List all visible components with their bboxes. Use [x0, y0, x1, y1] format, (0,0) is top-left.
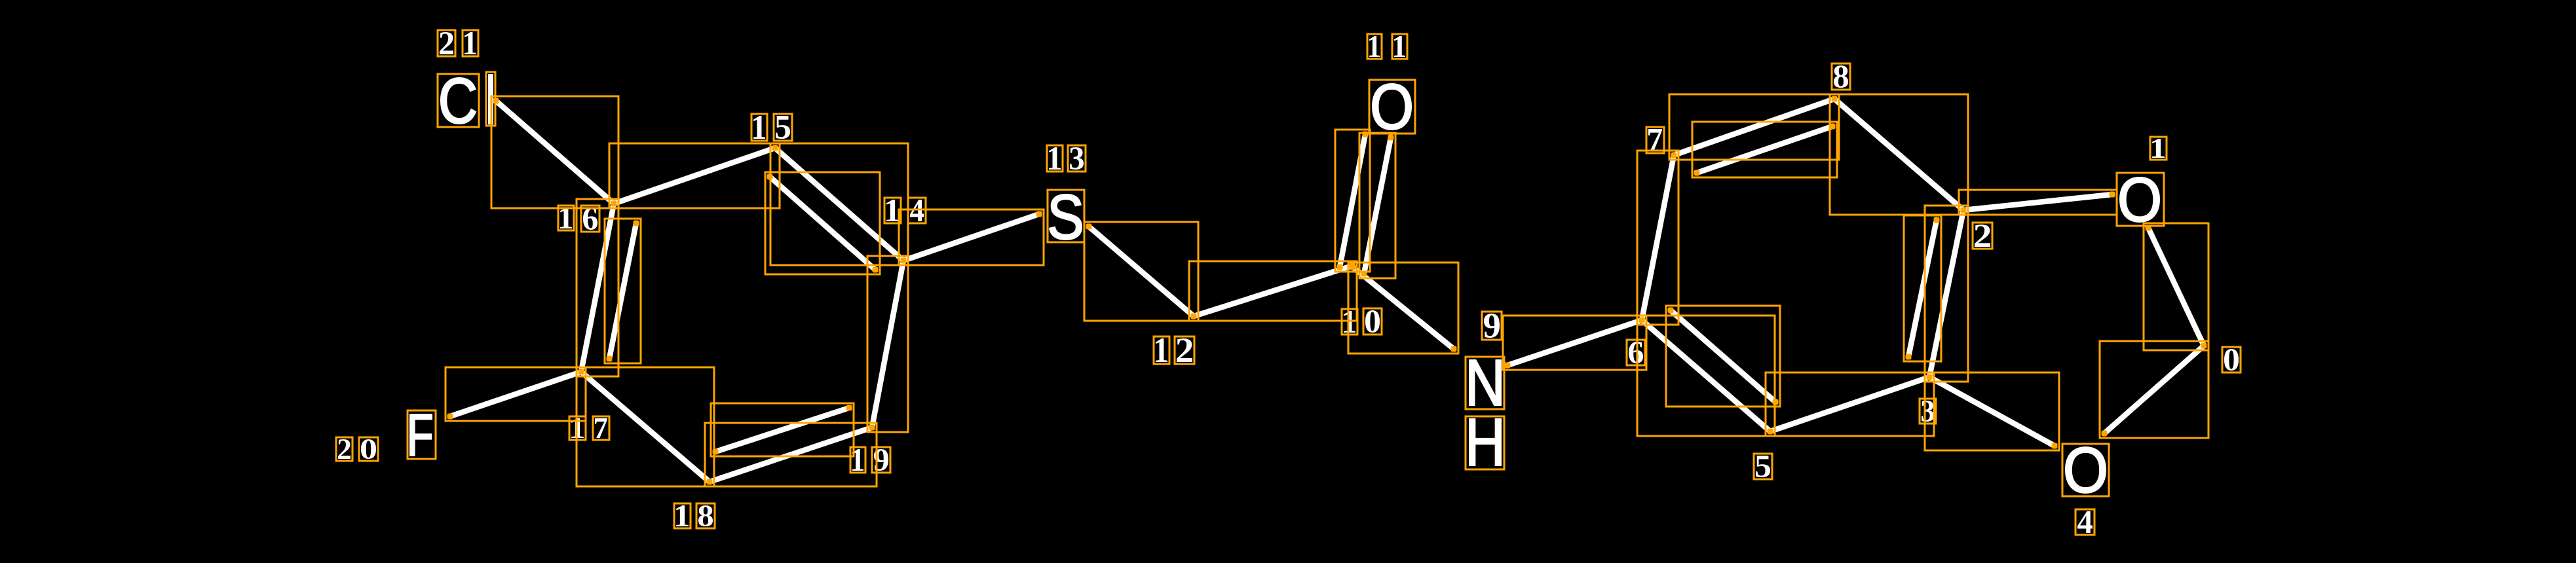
box of bond C8-C2 [1830, 94, 1968, 215]
box of bond C10=O11 right [1359, 133, 1395, 278]
box of index 20 digit 0 [359, 437, 378, 461]
bond C2-O1 [1963, 194, 2112, 210]
bond C14-C19 [872, 261, 903, 427]
index 3 digit glyph [1922, 401, 1934, 422]
index 18 digit 1 glyph [676, 505, 689, 526]
atom N9 'H' glyph [1469, 419, 1501, 465]
index 9 digit glyph [1484, 314, 1500, 338]
index 8 digit glyph [1834, 65, 1848, 88]
atom O1 glyph [2120, 177, 2159, 222]
box of index 21 digit 1 [463, 30, 478, 56]
box of index 21 digit 2 [438, 30, 455, 56]
index 15 digit 1 glyph [753, 116, 765, 139]
atom S13 glyph [1050, 194, 1082, 240]
atom Cl21 'l' glyph [489, 75, 493, 124]
box of index 11 digit a [1367, 34, 1382, 59]
box of index 19 digit 9 [872, 447, 890, 473]
box of bond C19-C18 inner [711, 403, 854, 456]
bond C8-C2 [1834, 99, 1963, 210]
box of bond N9-C6 [1503, 316, 1646, 370]
box of bond C16-C15 [609, 143, 780, 208]
box of index 7 digit [1646, 127, 1664, 153]
index 14 digit 1 glyph [886, 200, 899, 221]
bond C10-N9 [1353, 267, 1454, 349]
box of bond C17-F20 [445, 367, 586, 421]
bond C15-C14 inner [770, 177, 875, 270]
box of bond C19-C18 main [705, 423, 877, 486]
box of index 15 digit 1 [751, 114, 767, 141]
box of index 16 digit 6 [581, 206, 599, 232]
box of bond C3-O4 [1925, 372, 2059, 450]
box of index 10 digit 0 [1363, 308, 1382, 335]
box of index 16 digit 1 [558, 206, 574, 230]
atom O4 glyph [2066, 447, 2106, 493]
box of bond C12-C10 [1189, 261, 1357, 321]
box of index 17 digit 1 [569, 416, 586, 440]
box of bond C2-O1 [1959, 190, 2117, 215]
bond C3-C5 [1770, 377, 1929, 431]
bond C10=O11 left [1340, 134, 1365, 267]
index 20 digit 0 glyph [361, 439, 376, 459]
box of bond C10-N9 [1348, 263, 1458, 354]
index 13 digit 1 glyph [1049, 147, 1061, 170]
box of bond C16-C17 inner [605, 219, 641, 363]
index 5 digit glyph [1756, 456, 1770, 477]
bond C19-C18 main [710, 427, 872, 482]
box of bond C3-C5 [1766, 372, 1934, 436]
index 17 digit 1 glyph [571, 418, 584, 438]
index 19 digit 9 glyph [874, 449, 888, 471]
bond C16-C15 [614, 148, 775, 204]
box of atom Cl21 'C' glyph [438, 74, 479, 127]
box of index 12 digit 2 [1175, 336, 1194, 364]
box of index 0 digit [2222, 347, 2241, 372]
index 11 digit b glyph [1394, 36, 1405, 57]
box of bond C16-C17 main [577, 199, 618, 376]
box of bond C15-C14 main [770, 143, 908, 265]
index 13 digit 3 glyph [1070, 147, 1084, 170]
box of index 20 digit 2 [336, 437, 352, 461]
index 21 digit 1 glyph [464, 32, 476, 54]
index 10 digit 0 glyph [1365, 310, 1380, 333]
box of bond C14-C19 [867, 256, 908, 432]
box of index 10 digit 1 [1342, 309, 1357, 335]
box of index 9 digit [1482, 312, 1502, 340]
box of bond C10=O11 left [1335, 130, 1370, 272]
index 16 digit 6 glyph [583, 208, 597, 230]
atom F20 glyph [410, 414, 432, 456]
box of index 19 digit 1 [850, 447, 865, 473]
index 0 digit glyph [2224, 349, 2239, 371]
index 21 digit 2 glyph [440, 32, 453, 54]
box of index 13 digit 1 [1047, 145, 1063, 172]
index 17 digit 7 glyph [595, 418, 607, 438]
atom N9 'N' glyph [1469, 360, 1501, 405]
bond C10=O11 right [1364, 137, 1391, 274]
box of index 17 digit 7 [593, 416, 609, 440]
bond C12-C10 [1194, 266, 1352, 316]
index 10 digit 1 glyph [1344, 311, 1355, 333]
box of bond C5-C6 inner [1666, 306, 1780, 407]
bond C18-C17 [581, 372, 710, 482]
box of index 14 digit 4 [908, 198, 926, 223]
index 19 digit 1 glyph [852, 449, 863, 471]
box of index 15 digit 5 [774, 114, 792, 141]
box of index 8 digit [1832, 64, 1850, 90]
box of bond C5-C6 main [1637, 316, 1775, 436]
atom Cl21 'C' glyph [441, 78, 476, 124]
bond C16-C17 main [581, 204, 614, 372]
index 15 digit 5 glyph [776, 116, 790, 139]
box of bond O1-C0 [2144, 223, 2208, 350]
bond C16-C17 inner [609, 223, 636, 359]
bond S13-C12 [1089, 227, 1194, 316]
bond C5-C6 inner [1671, 310, 1775, 402]
box of index 12 digit 1 [1154, 336, 1169, 364]
box of atom F20 glyph [407, 410, 436, 459]
bond endpoint / atom markers [447, 96, 2207, 485]
box of bond C6-C7 [1637, 151, 1678, 325]
bond C14-S13 [903, 214, 1039, 261]
bond C15-C14 main [775, 148, 903, 261]
box of bond C7-C8 main [1669, 94, 1839, 160]
box of index 11 digit b [1392, 34, 1407, 59]
box of bond C18-C17 [577, 367, 714, 486]
box of index 4 digit [2075, 509, 2094, 535]
box of atom O11 glyph [1369, 80, 1415, 134]
index 18 digit 8 glyph [698, 505, 713, 526]
index 6 digit glyph [1629, 342, 1643, 363]
index 20 digit 2 glyph [338, 439, 350, 459]
bond C2-C3 inner [1908, 220, 1937, 357]
index 12 digit 2 glyph [1177, 338, 1192, 362]
index 1 digit glyph [2152, 139, 2165, 158]
box of atom N9 'H' glyph [1466, 416, 1504, 469]
bond C0-O4 [2104, 346, 2204, 433]
box of bond C15-C14 inner [765, 172, 880, 274]
bond C7-C8 main [1674, 99, 1834, 155]
index 7 digit glyph [1648, 129, 1662, 151]
box of index 5 digit [1754, 454, 1772, 479]
box of atom O1 glyph [2117, 173, 2164, 226]
box of index 2 digit [1973, 223, 1992, 249]
index 14 digit 4 glyph [910, 200, 924, 221]
bond Cl-C16 [496, 101, 614, 204]
box of bond S13-C12 [1084, 222, 1198, 321]
box of index 6 digit [1627, 340, 1645, 365]
index 12 digit 1 glyph [1156, 338, 1167, 362]
box of atom Cl21 'l' glyph [486, 72, 495, 126]
index 2 digit glyph [1975, 225, 1990, 247]
box of bond C2-C3 main [1925, 206, 1968, 382]
bond N9-C6 [1507, 320, 1642, 365]
box of index 18 digit 1 [674, 503, 691, 528]
box of index 1 digit [2150, 137, 2167, 160]
box of index 3 digit [1920, 399, 1936, 424]
box of index 14 digit 1 [884, 198, 901, 223]
bond C5-C6 main [1642, 320, 1770, 431]
index 11 digit a glyph [1369, 36, 1380, 57]
box of bond C2-C3 inner [1904, 215, 1941, 361]
index 16 digit 1 glyph [560, 208, 572, 228]
bond C19-C18 inner [715, 408, 849, 452]
index 4 digit glyph [2077, 511, 2093, 533]
box of bond Cl-C16 [491, 96, 618, 208]
box of atom S13 glyph [1048, 190, 1084, 242]
box of atom N9 'N' glyph [1466, 357, 1504, 409]
bond C7-C8 inner [1697, 126, 1832, 173]
box of bond C14-S13 [899, 209, 1044, 265]
bond O1-C0 [2148, 228, 2204, 346]
box of index 18 digit 8 [696, 503, 715, 528]
bond C2-C3 main [1929, 210, 1963, 377]
bond C6-C7 [1642, 155, 1674, 320]
atom O11 glyph [1373, 84, 1411, 130]
bond C17-F20 [450, 372, 581, 416]
bond C3-O4 [1929, 377, 2055, 446]
box of bond C7-C8 inner [1692, 122, 1837, 177]
box of bond C0-O4 [2100, 341, 2208, 438]
box of index 13 digit 3 [1068, 145, 1086, 172]
box of atom O4 glyph [2062, 444, 2109, 496]
